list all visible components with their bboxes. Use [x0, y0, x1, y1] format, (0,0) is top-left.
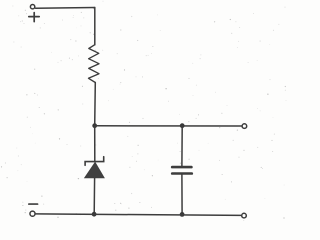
- zener diode D1 triangle (anode): [85, 162, 105, 178]
- capacitor C1 top plate: [172, 166, 191, 169]
- terminal output - (open circle bottom right): [242, 213, 247, 218]
- node D junction dot (capacitor bottom): [180, 212, 185, 217]
- terminal output + (open circle right middle): [242, 124, 247, 129]
- wire top horizontal: [36, 7, 95, 10]
- wire capacitor branch bottom: [181, 175, 183, 215]
- terminal - input (open circle bottom-left): [30, 211, 35, 216]
- wire top vertical to resistor: [94, 8, 96, 45]
- wire zener to bottom node: [93, 178, 95, 214]
- + label: [29, 13, 39, 22]
- wire node A down to zener: [94, 126, 96, 162]
- node A junction dot: [92, 123, 97, 128]
- node B junction dot (capacitor top): [180, 123, 185, 128]
- wire resistor to node A: [94, 83, 97, 126]
- wire bottom horizontal: [36, 214, 241, 216]
- zener diode D1 cathode bar: [85, 157, 104, 166]
- wire middle horizontal: [95, 125, 242, 127]
- node C junction dot (bottom left branch): [92, 212, 97, 217]
- resistor R1: [89, 45, 100, 83]
- capacitor C1 bottom plate: [172, 172, 192, 175]
- wire capacitor branch top: [181, 126, 183, 166]
- terminal + input (open circle top-left): [30, 5, 34, 9]
- - label: [29, 203, 38, 205]
